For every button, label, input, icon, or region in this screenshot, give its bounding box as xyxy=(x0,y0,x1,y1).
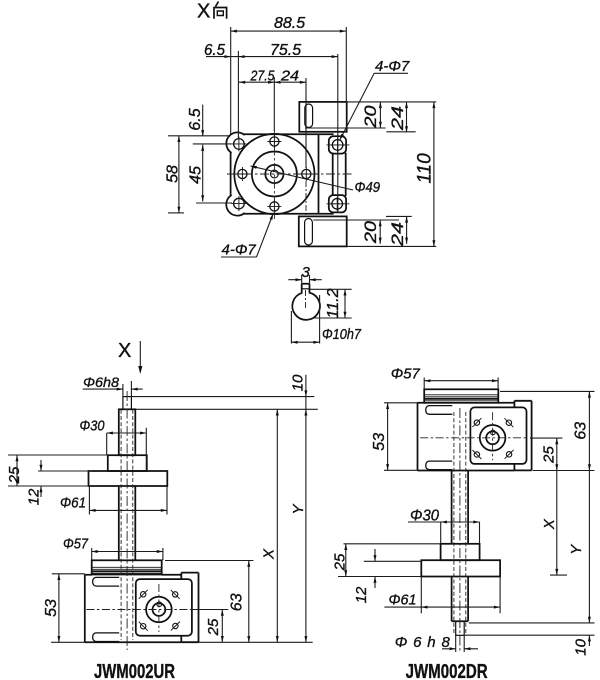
svg-text:20: 20 xyxy=(361,220,380,244)
svg-text:X: X xyxy=(118,340,131,362)
svg-text:11.2: 11.2 xyxy=(325,288,342,318)
svg-text:Φ30: Φ30 xyxy=(80,418,106,435)
svg-text:JWM002UR: JWM002UR xyxy=(94,661,175,680)
svg-text:Φ49: Φ49 xyxy=(355,179,381,196)
svg-text:10: 10 xyxy=(290,374,307,391)
svg-text:Φ57: Φ57 xyxy=(63,536,89,553)
svg-text:Φ30: Φ30 xyxy=(410,508,439,525)
svg-text:Φ10h7: Φ10h7 xyxy=(322,326,362,343)
svg-text:12: 12 xyxy=(26,488,43,505)
svg-text:53: 53 xyxy=(371,433,388,451)
svg-text:27.5: 27.5 xyxy=(250,68,275,85)
svg-text:6.5: 6.5 xyxy=(187,108,204,130)
svg-text:45: 45 xyxy=(188,166,205,184)
svg-text:75.5: 75.5 xyxy=(270,42,301,59)
svg-text:24: 24 xyxy=(388,106,407,131)
svg-text:25: 25 xyxy=(332,553,349,571)
svg-text:Φ61: Φ61 xyxy=(389,592,417,609)
svg-text:24: 24 xyxy=(388,222,407,247)
svg-text:4-Φ7: 4-Φ7 xyxy=(222,242,257,259)
svg-text:20: 20 xyxy=(361,105,380,129)
svg-text:63: 63 xyxy=(573,422,590,440)
svg-text:12: 12 xyxy=(353,586,370,603)
svg-text:24: 24 xyxy=(280,68,299,85)
svg-text:X: X xyxy=(261,548,278,560)
svg-text:53: 53 xyxy=(43,599,60,617)
svg-text:X: X xyxy=(541,518,558,530)
svg-text:88.5: 88.5 xyxy=(274,15,305,32)
svg-text:25: 25 xyxy=(205,618,222,636)
svg-text:110: 110 xyxy=(415,153,436,184)
svg-text:3: 3 xyxy=(302,264,311,281)
svg-text:25: 25 xyxy=(541,446,558,464)
svg-text:Y: Y xyxy=(290,504,307,515)
svg-text:Φ61: Φ61 xyxy=(60,495,86,512)
svg-text:Φ57: Φ57 xyxy=(391,366,421,383)
svg-text:58: 58 xyxy=(165,165,182,183)
svg-text:63: 63 xyxy=(229,593,246,611)
svg-text:4-Φ7: 4-Φ7 xyxy=(375,58,410,75)
svg-text:10: 10 xyxy=(573,638,590,655)
svg-text:X: X xyxy=(197,1,210,23)
svg-text:JWM002DR: JWM002DR xyxy=(406,661,488,680)
svg-text:Φ6h8: Φ6h8 xyxy=(83,374,119,390)
svg-text:25: 25 xyxy=(6,466,23,484)
svg-text:Y: Y xyxy=(568,544,585,555)
svg-text:6.5: 6.5 xyxy=(204,42,225,59)
